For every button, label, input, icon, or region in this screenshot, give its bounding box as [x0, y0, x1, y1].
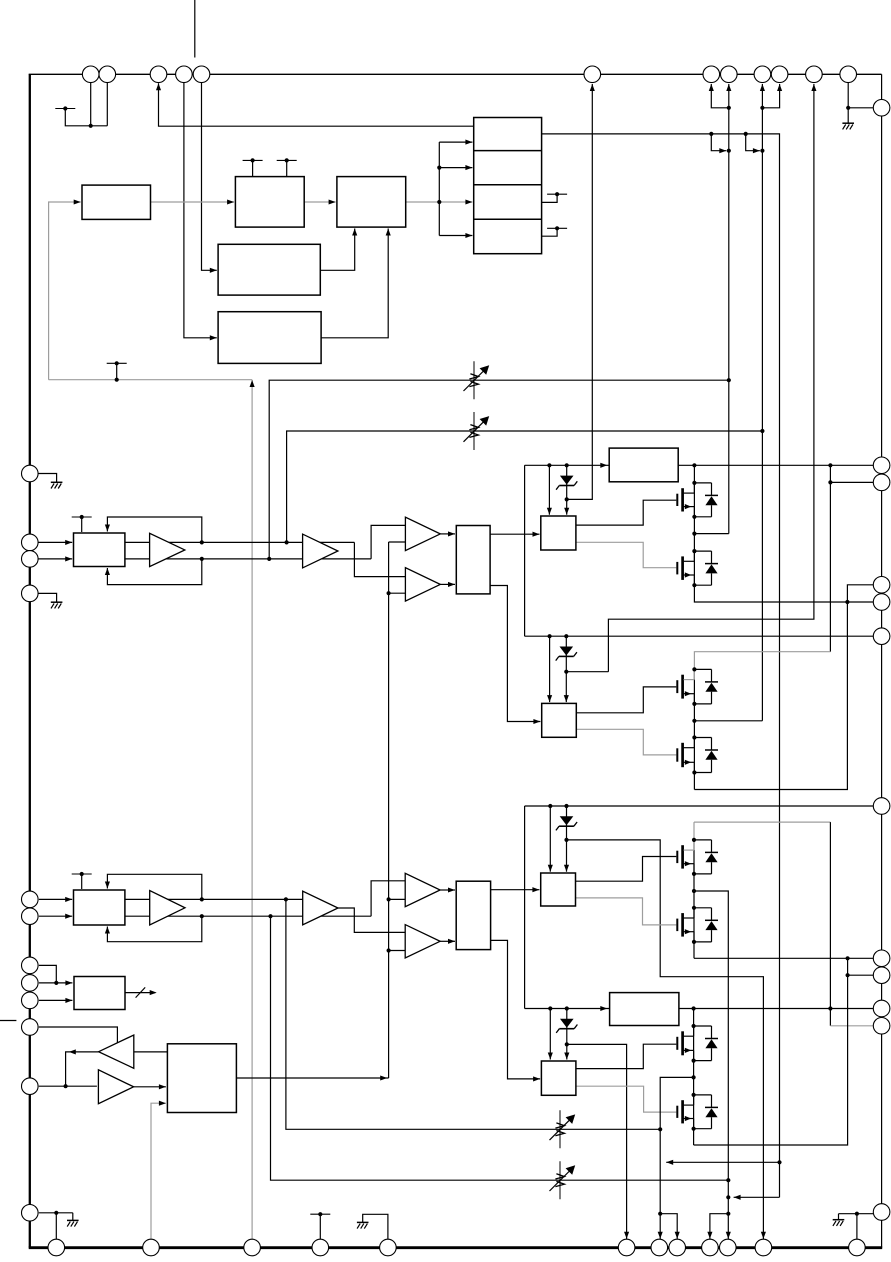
- op-amp A3: [150, 891, 185, 925]
- wire comp lo2 out: [440, 940, 455, 942]
- pin right 12: [873, 1204, 890, 1221]
- transistor Q1: [681, 488, 684, 511]
- wire row bracket vertical: [438, 142, 440, 235]
- wire VM rail 2 bracket: [524, 806, 526, 1009]
- wire pin GND1 stub: [38, 474, 57, 483]
- wire lower2 to comparator up2: [371, 881, 405, 916]
- external stub line above top border: [194, 0, 196, 58]
- junction row1/pinA: [709, 132, 713, 136]
- block U14 predriver 2: [542, 703, 577, 737]
- supply tick U9: [72, 873, 92, 875]
- wire U2 stub 1: [252, 160, 254, 176]
- IC outline border: [29, 74, 31, 1247]
- junction rail2/pd3 stub: [548, 804, 552, 808]
- wire pd4 gate drive Q8 grey: [576, 1086, 676, 1112]
- wire sel1 to pd1: [490, 533, 539, 535]
- external tick left margin: [0, 1020, 16, 1022]
- block U1 reference: [82, 185, 151, 219]
- wire logic osc out: [236, 1077, 388, 1079]
- wire rail2low to pd4: [549, 1009, 551, 1060]
- pin top 2: [99, 66, 116, 83]
- wire fet bus bridge2 low: [693, 1009, 695, 1146]
- body diode Q5: [694, 839, 712, 841]
- wire amp2 pair lower: [125, 915, 371, 917]
- block U13 predriver 1: [541, 516, 576, 550]
- arrow rail2low into U7: [600, 1006, 607, 1011]
- wire pin IN1+ to U8: [38, 541, 72, 543]
- pin top 5: [193, 66, 210, 83]
- pin left 11: [22, 1078, 39, 1095]
- junction RNF1 tie: [845, 600, 849, 604]
- pin top 8: [721, 66, 738, 83]
- bus slash mark: [136, 987, 146, 997]
- ground symbol bottom-left: [67, 1219, 79, 1221]
- variable resistor VR3: [559, 1110, 561, 1148]
- junction feed/1162: [777, 1160, 781, 1164]
- pin top 1: [82, 66, 99, 83]
- pin bottom 4: [312, 1239, 329, 1256]
- comparator C4: [405, 925, 440, 958]
- wire pin IN1- to U8: [38, 558, 72, 560]
- wire U2 to U3: [304, 201, 335, 203]
- pin bottom 8: [669, 1239, 686, 1256]
- junction feed/OUT2A: [726, 1195, 730, 1199]
- junction fb/lower1: [200, 557, 204, 561]
- junction RNF2 pin975: [846, 973, 850, 977]
- junction fb/upper2: [200, 897, 204, 901]
- pin top 12: [840, 66, 857, 83]
- arrow rail1 into U6: [600, 463, 607, 468]
- pin bottom 9: [702, 1239, 719, 1256]
- wire gnd pin to corner pin: [848, 107, 873, 109]
- block U5 logic B: [218, 312, 321, 364]
- wire U9 fb top: [107, 874, 201, 899]
- block U8 input amp 1: [74, 533, 125, 567]
- wire pin5 to block U5: [184, 83, 217, 338]
- wire pin GND2 stub: [38, 593, 57, 602]
- wire buffer L out to pin: [66, 1052, 99, 1086]
- pin right 2: [873, 457, 890, 474]
- wire U5 output to U3: [321, 229, 388, 338]
- pin bottom 12: [849, 1239, 866, 1256]
- pin bottom 3: [244, 1239, 261, 1256]
- zener diode D4: [566, 1009, 568, 1045]
- wire VM rail 1 low: [525, 635, 874, 637]
- block U18 control logic: [167, 1044, 236, 1113]
- wire bracket to row1: [439, 141, 472, 143]
- wire feed arrow into OUT1B line: [711, 134, 726, 151]
- wire pin S2 to decoder: [39, 982, 73, 984]
- pin left 1: [22, 465, 39, 482]
- ground symbol bottom-right: [833, 1219, 845, 1221]
- pin left 3: [22, 551, 39, 568]
- wire OUT1A tap: [694, 720, 762, 722]
- pin left 12: [22, 1205, 39, 1222]
- junction rail1low/zener D2: [564, 634, 568, 638]
- wire pin IN2- to U9: [39, 915, 72, 917]
- wire gnd pin drop: [55, 1213, 57, 1240]
- comparator C3: [405, 873, 440, 906]
- wire PWM fb line 4: [271, 916, 729, 1180]
- supply tick U2-2: [277, 159, 297, 161]
- block U12 selector 2: [456, 881, 490, 949]
- junction fb/lower2: [200, 914, 204, 918]
- junction OUT1B tap: [692, 532, 696, 536]
- block U7 boost regulator 2: [610, 993, 679, 1026]
- junction fb3/OUT2B leg: [658, 1127, 662, 1131]
- wire pin S3 to decoder: [39, 999, 73, 1001]
- wire VM rail 1 horizontal: [525, 464, 874, 466]
- wire D4 node to pin CP: [567, 1044, 627, 1239]
- body diode Q6: [694, 907, 712, 909]
- pin bottom 10: [720, 1239, 737, 1256]
- block U15 predriver 3: [541, 873, 576, 906]
- wire row1 output to OUT feeds: [542, 134, 780, 1197]
- supply tick U8: [72, 516, 92, 518]
- zener diode D2: [565, 636, 567, 672]
- junction rail1/pd1 stub: [547, 463, 551, 467]
- wire rail1low to pd2: [549, 636, 551, 702]
- junction OUT2A bracket: [726, 1212, 730, 1216]
- wire gnd pin drop right: [856, 1214, 858, 1240]
- junction OUT2B bracket: [658, 1212, 662, 1216]
- wire feed arrow into OUT2B leg: [666, 1161, 779, 1163]
- wire Q6 source to RNF2: [694, 957, 873, 959]
- junction grey sense/tick: [115, 378, 119, 382]
- ground symbol top-right: [842, 122, 854, 124]
- wire pin AGND riser: [363, 1214, 388, 1239]
- wire grey feedback into U1: [49, 202, 81, 380]
- junction rail1/fet bus: [692, 463, 696, 467]
- junction fb2/OUT1A leg: [760, 429, 764, 433]
- wire pin OUT1A-a lead / OUT1A leg: [761, 84, 763, 721]
- wire U2 stub 2: [286, 160, 288, 176]
- wire D4 to pd4: [566, 1044, 568, 1059]
- wire stack row3 stub: [542, 194, 558, 202]
- wire PWM fb line 2: [287, 431, 763, 542]
- pin bottom 6: [618, 1239, 635, 1256]
- wire pin OUT1A-b lead: [762, 84, 779, 108]
- junction VM pin2: [828, 480, 832, 484]
- ground symbol pin GND1: [51, 481, 63, 483]
- junction bufferL/pin line: [64, 1084, 68, 1088]
- wire U8 fb top: [107, 517, 201, 542]
- junction row1/pinB: [744, 132, 748, 136]
- junction fb3/upper amp2: [284, 897, 288, 901]
- wire bracket to row4: [439, 235, 472, 237]
- junction RNF2 tie: [846, 956, 850, 960]
- junction OUT2B tap: [692, 1075, 696, 1079]
- junction OUT2A tap: [692, 889, 696, 893]
- wire VM rail 1: [524, 465, 526, 636]
- junction bracket row3: [437, 200, 441, 204]
- pin top 4: [176, 66, 193, 83]
- wire pin OUT1B-a lead: [711, 84, 729, 108]
- wire rail1 to pd1: [548, 465, 550, 514]
- wire U4 output to U3: [320, 229, 354, 271]
- junction rail1low/pd2 stub: [548, 634, 552, 638]
- wire pin S1 to decoder: [39, 965, 56, 983]
- pin top 11: [806, 66, 823, 83]
- wire pd1 gate drive Q2 grey: [576, 542, 676, 567]
- wire comp up2 out: [440, 889, 455, 891]
- junction OUT1A feed: [760, 149, 764, 153]
- wire D3 node to pin VG3: [567, 840, 764, 1239]
- transistor Q3: [681, 675, 684, 699]
- wire OUT1B tap: [694, 533, 728, 535]
- transistor Q5: [681, 845, 684, 868]
- wire sel1 out2 to pd2: [490, 586, 540, 722]
- wire VM2 pin tie: [829, 822, 831, 1026]
- ground symbol mid-bottom: [357, 1221, 369, 1223]
- pin right 11: [873, 1018, 890, 1035]
- pin right 8: [873, 950, 890, 967]
- pin left 2: [22, 534, 39, 551]
- junction fb4/lower amp2: [268, 914, 272, 918]
- wire gnd stub right: [838, 1214, 840, 1220]
- block U3 control: [337, 177, 406, 228]
- wire U9 fb bottom: [107, 916, 201, 942]
- wire osc ref ch1: [389, 541, 406, 543]
- variable resistor VR1: [473, 361, 475, 399]
- wire osc ref ch2 low: [389, 950, 406, 952]
- wire pd1 gate drive Q1: [576, 500, 676, 525]
- wire pin EN to buffer enable: [39, 1027, 118, 1043]
- pin right 6: [873, 628, 890, 645]
- wire buffer R out to logic: [134, 1086, 166, 1088]
- supply tick node B: [107, 362, 127, 364]
- wire fet bus bridge2 high: [693, 840, 695, 958]
- pin bottom 7: [651, 1239, 668, 1256]
- buffer B2 (right): [98, 1070, 133, 1104]
- wire OUT2B pin bracket: [660, 1214, 677, 1240]
- wire amp2 apex out: [338, 908, 405, 932]
- wire sel2 out2 to pd4: [491, 940, 540, 1079]
- junction fb4/OUT2A leg: [726, 1178, 730, 1182]
- wire OUT2B tap: [660, 1077, 693, 1239]
- wire pin6 to block U4: [202, 83, 217, 271]
- junction fb/upper1: [200, 540, 204, 544]
- pin right 9: [873, 967, 890, 984]
- pin bottom 11: [755, 1239, 772, 1256]
- wire RNF2 pin975 lead: [848, 974, 874, 976]
- wire amp1 pair upper: [125, 541, 355, 543]
- wire grey VM2 pin lead: [830, 1025, 873, 1027]
- junction bottom-left gnd: [54, 1211, 58, 1215]
- wire upper1 to comparator low: [354, 542, 405, 576]
- block U6 boost regulator 1: [609, 448, 678, 482]
- wire tick stub U8: [81, 517, 83, 532]
- junction rail2low/VM pin tie: [828, 1006, 832, 1010]
- ground symbol pin GND2: [51, 601, 63, 603]
- junction fb2/upper amp line: [285, 540, 289, 544]
- junction OUT1B feed: [727, 149, 731, 153]
- pin top 7: [703, 66, 720, 83]
- wire logic to buffer L: [134, 1051, 168, 1053]
- wire pin2 lead: [106, 83, 108, 126]
- junction osc/lo2: [387, 948, 391, 952]
- pin right 7: [873, 798, 890, 815]
- junction S1/S2: [54, 981, 58, 985]
- junction rail2low/zener D4: [565, 1006, 569, 1010]
- wire rail2 to pd3: [549, 806, 551, 872]
- wire tick stub bottom: [319, 1214, 321, 1239]
- comparator C1: [405, 517, 440, 550]
- junction OUT1A pins: [760, 106, 764, 110]
- wire D2 to pd2: [565, 672, 567, 702]
- junction rail1/VM pin tie: [828, 463, 832, 467]
- block U16 predriver 4: [541, 1061, 576, 1095]
- wire comp up1 out: [440, 533, 455, 535]
- op-amp A2: [303, 534, 338, 568]
- pin right 4: [873, 577, 890, 594]
- junction top gnd: [846, 106, 850, 110]
- wire comp lo1 out: [440, 583, 455, 585]
- comparator C2: [405, 568, 440, 601]
- wire pin OUT1B-b lead / OUT1B leg: [728, 84, 730, 534]
- pin left 8: [22, 975, 39, 992]
- wire tick stub B: [116, 363, 118, 379]
- wire D2 node link: [566, 671, 608, 673]
- pin right 5: [873, 594, 890, 611]
- zener diode D1: [566, 465, 568, 499]
- pin top 6: [584, 66, 601, 83]
- junction rail2low/pd4 stub: [548, 1006, 552, 1010]
- wire VM pin tie: [829, 465, 831, 651]
- supply tick node A: [55, 108, 75, 110]
- wire stack row4 stub: [542, 228, 558, 236]
- pin left 6: [22, 908, 39, 925]
- wire bottom-right gnd net: [839, 1213, 875, 1215]
- wire grey Q5 drain drop: [693, 822, 695, 840]
- junction fb1/OUT1B leg: [727, 378, 731, 382]
- pin left 10: [22, 1019, 39, 1036]
- wire fet bus bridge1 high: [694, 465, 873, 602]
- wire pin FB to buffer R: [39, 1085, 97, 1087]
- pin top 10: [771, 66, 788, 83]
- wire VM rail 2 high: [525, 805, 874, 807]
- wire PWM fb line 3: [286, 899, 660, 1129]
- transistor Q8: [681, 1100, 684, 1123]
- wire U3 to comparator row3: [406, 201, 473, 203]
- wire D3 to pd3: [566, 840, 568, 872]
- wire supply tie to pins 1-2: [65, 109, 107, 126]
- pin bottom 1: [48, 1239, 65, 1256]
- wire PWM fb line 1: [269, 380, 729, 559]
- wire amp1 pair lower: [125, 558, 371, 560]
- wire feed arrow into OUT2A leg: [734, 1196, 780, 1198]
- wire feed arrow into OUT1A line: [746, 134, 760, 151]
- pin top 3: [150, 66, 167, 83]
- wire D1 to pd1: [566, 499, 568, 514]
- variable resistor VR2: [473, 412, 475, 450]
- wire amp2 pair upper: [125, 898, 318, 900]
- wire grey sense line: [49, 379, 253, 381]
- body diode Q1: [694, 482, 711, 484]
- wire RNF2 pin2 lead: [694, 958, 848, 1145]
- block U17 decoder: [74, 977, 125, 1010]
- wire RNF1 pin lead: [694, 585, 873, 790]
- wire pd2 gate drive Q4 grey: [576, 729, 676, 755]
- wire bracket to row2: [439, 167, 472, 169]
- zener diode D3: [566, 806, 568, 840]
- block U11 selector 1: [456, 526, 490, 594]
- wire pin GND top lead: [847, 83, 849, 124]
- wire fet bus bridge1 low: [693, 669, 695, 789]
- junction rail1/zener D1: [565, 463, 569, 467]
- transistor Q4: [681, 743, 684, 767]
- block U2 oscillator: [235, 177, 304, 228]
- wire OUT2A pin bracket: [710, 1214, 728, 1240]
- wire tick stub U9: [81, 874, 83, 889]
- pin left 4: [22, 585, 39, 602]
- buffer B1 (left): [99, 1035, 134, 1068]
- pin right 10: [873, 1000, 890, 1017]
- wire VM pin2 lead: [830, 481, 873, 483]
- wire VM rail 2 low: [525, 1008, 874, 1010]
- junction rail2low/fet bus: [692, 1006, 696, 1010]
- wire pin4 to comparator block row1: [159, 83, 474, 126]
- wire pd3 gate drive Q6 grey: [576, 898, 677, 925]
- supply tick bottom pin: [310, 1213, 330, 1215]
- wire U1 to U2: [151, 201, 235, 203]
- junction osc/lo1: [387, 591, 391, 595]
- block U10 comparator stack: [474, 118, 542, 254]
- junction osc/up2: [387, 897, 391, 901]
- supply tick row3: [547, 193, 567, 195]
- body diode Q8: [694, 1094, 712, 1096]
- wire osc ref ch2 up: [389, 898, 406, 900]
- pin top 9: [754, 66, 771, 83]
- op-amp A4: [303, 891, 338, 925]
- pin bottom 5: [380, 1239, 397, 1256]
- wire pins 1-2 common: [90, 83, 92, 126]
- wire lower1 to comparator up: [371, 525, 405, 559]
- body diode Q3: [694, 668, 711, 670]
- wire OUT2A tap: [694, 891, 728, 1239]
- body diode Q7: [694, 1025, 712, 1027]
- transistor Q7: [681, 1031, 684, 1055]
- wire decoder bus out: [125, 992, 155, 994]
- transistor Q6: [681, 913, 684, 937]
- wire osc ref leg: [388, 542, 390, 1078]
- junction bracket row2: [437, 166, 441, 170]
- pin left 7: [22, 957, 39, 974]
- block U9 input amp 2: [74, 890, 125, 925]
- pin bottom 2: [143, 1239, 160, 1256]
- wire gnd stub: [72, 1213, 74, 1221]
- wire pd4 gate drive Q7: [576, 1044, 676, 1068]
- junction rail2/zener D3: [564, 804, 568, 808]
- pin right 1: [873, 100, 890, 117]
- wire pin VG1 to zener D1 node: [567, 84, 593, 499]
- wire sel2 to pd3: [491, 889, 540, 891]
- wire pin IN2+ to U9: [39, 898, 72, 900]
- junction fb1/lower amp line: [267, 557, 271, 561]
- wire grey mode pin to logic: [151, 1103, 166, 1239]
- wire grey Q5 drain to VM2: [694, 821, 830, 823]
- transistor Q2: [681, 556, 684, 580]
- supply tick U2-1: [243, 159, 263, 161]
- junction OUT1B pins: [727, 106, 731, 110]
- supply tick row4: [547, 227, 567, 229]
- wire U8 fb bottom: [107, 559, 201, 585]
- variable resistor VR4: [559, 1161, 561, 1199]
- block U4 logic A: [218, 244, 320, 295]
- junction pins1-2: [89, 124, 93, 128]
- wire pd2 gate drive Q3: [576, 687, 676, 713]
- op-amp A1: [150, 533, 185, 566]
